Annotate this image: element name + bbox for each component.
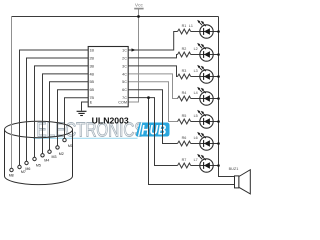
svg-text:R2: R2 — [182, 47, 187, 51]
svg-text:M5: M5 — [36, 163, 41, 167]
power Vcc — [134, 3, 143, 9]
svg-text:2B: 2B — [90, 56, 95, 60]
node M5 probe — [33, 157, 41, 167]
wire output 7C to LED7 — [128, 98, 177, 166]
wire output 6C — [128, 90, 177, 144]
LED L3 — [194, 65, 214, 83]
LED L7 — [194, 154, 214, 172]
junction row 2 — [217, 53, 220, 56]
svg-text:5C: 5C — [122, 80, 127, 84]
svg-text:ULN2003: ULN2003 — [92, 116, 129, 126]
resistor R4 — [178, 96, 191, 101]
tank cylinder — [5, 121, 73, 184]
wire 1B-7B input 4 — [43, 74, 89, 154]
node M8 probe — [9, 168, 14, 177]
resistor R7 — [178, 163, 191, 168]
junction 7C — [147, 96, 150, 99]
node M2 probe — [56, 146, 64, 156]
wire E to ground — [82, 102, 89, 111]
wire output 5C — [128, 82, 177, 122]
svg-text:1B: 1B — [90, 48, 95, 52]
svg-text:M2: M2 — [59, 152, 64, 156]
wire R6 to L6 — [191, 143, 219, 145]
svg-text:3C: 3C — [122, 64, 127, 68]
svg-text:M1: M1 — [68, 144, 73, 148]
wire R7 to L7 — [191, 165, 219, 167]
svg-text:2C: 2C — [122, 56, 127, 60]
svg-text:5B: 5B — [90, 80, 95, 84]
junction row 4 — [217, 97, 220, 100]
node M6 probe — [25, 161, 31, 171]
svg-text:M8: M8 — [9, 173, 14, 177]
svg-text:L6: L6 — [194, 136, 198, 140]
svg-text:1C: 1C — [122, 48, 127, 52]
wire 1B-7B input 3 — [35, 66, 89, 157]
wire 1B-7B input 2 — [27, 58, 89, 161]
node M4 probe — [41, 154, 50, 163]
wire R4 to L4 — [191, 98, 219, 100]
watermark HUB box — [137, 123, 169, 138]
LED L6 — [194, 132, 214, 150]
buzzer BUZ1 — [229, 167, 251, 194]
wire Vcc to COM — [128, 9, 138, 102]
junction Vcc — [137, 15, 140, 18]
wire 1B-7B input 5 — [50, 82, 89, 150]
junction row 1 — [217, 30, 220, 33]
wire R3 to L3 — [191, 76, 219, 78]
svg-text:M4: M4 — [44, 158, 49, 162]
wire output 2C — [128, 55, 177, 58]
svg-text:L5: L5 — [194, 114, 198, 118]
svg-text:R3: R3 — [182, 69, 187, 73]
svg-text:3B: 3B — [90, 64, 95, 68]
resistor R3 — [178, 74, 191, 79]
resistor R6 — [178, 141, 191, 146]
wire 7C branch to buzzer — [149, 98, 235, 185]
svg-text:M6: M6 — [25, 167, 30, 171]
node M7 probe — [18, 165, 26, 174]
svg-text:6B: 6B — [90, 88, 95, 92]
svg-text:R5: R5 — [182, 114, 187, 118]
ground — [77, 111, 87, 115]
svg-text:L4: L4 — [194, 91, 198, 95]
junction row 7 — [217, 164, 220, 167]
svg-text:L1: L1 — [189, 24, 193, 28]
wire LED common rail — [219, 17, 235, 177]
svg-text:R1: R1 — [182, 24, 187, 28]
svg-text:4B: 4B — [90, 72, 95, 76]
LED L2 — [194, 43, 214, 61]
wire output 4C — [128, 74, 177, 99]
node M3 probe — [48, 150, 57, 159]
wire output 3C — [128, 66, 177, 77]
wire Vcc to probe M8 — [11, 17, 13, 169]
svg-text:M3: M3 — [52, 155, 57, 159]
op-amp U1 ULN2003 body — [88, 47, 128, 107]
arrow on 1C wire — [132, 48, 136, 51]
node M1 probe — [63, 138, 73, 147]
wire 1B-7B input 1 — [20, 50, 89, 165]
resistor R5 — [178, 119, 191, 124]
svg-text:R4: R4 — [182, 91, 187, 95]
resistor R2 — [178, 52, 191, 57]
LED L4 — [194, 87, 214, 105]
svg-text:L2: L2 — [194, 47, 198, 51]
svg-text:BUZ1: BUZ1 — [229, 167, 239, 171]
svg-text:R7: R7 — [182, 158, 187, 162]
resistor R1 — [178, 29, 191, 34]
wire R2 to L2 — [191, 54, 219, 56]
wire R5 to L5 — [191, 121, 219, 123]
junction row 3 — [217, 75, 220, 78]
svg-text:Vcc: Vcc — [135, 3, 144, 9]
svg-text:L3: L3 — [194, 69, 198, 73]
svg-text:4C: 4C — [122, 72, 127, 76]
svg-text:COM: COM — [118, 100, 127, 104]
wire 1B-7B input 6 — [58, 90, 89, 146]
watermark underline — [33, 137, 138, 139]
wire output 1C — [128, 32, 177, 51]
svg-text:6C: 6C — [122, 88, 127, 92]
LED L1 — [189, 20, 213, 38]
junction row 5 — [217, 120, 220, 123]
wire R1 to L1 — [191, 31, 219, 33]
wire Vcc rail top — [12, 16, 219, 18]
junction row 6 — [217, 142, 220, 145]
svg-text:R6: R6 — [182, 136, 187, 140]
LED L5 — [194, 110, 214, 128]
svg-text:L7: L7 — [194, 158, 198, 162]
wire 1B-7B input 7 — [65, 98, 89, 139]
